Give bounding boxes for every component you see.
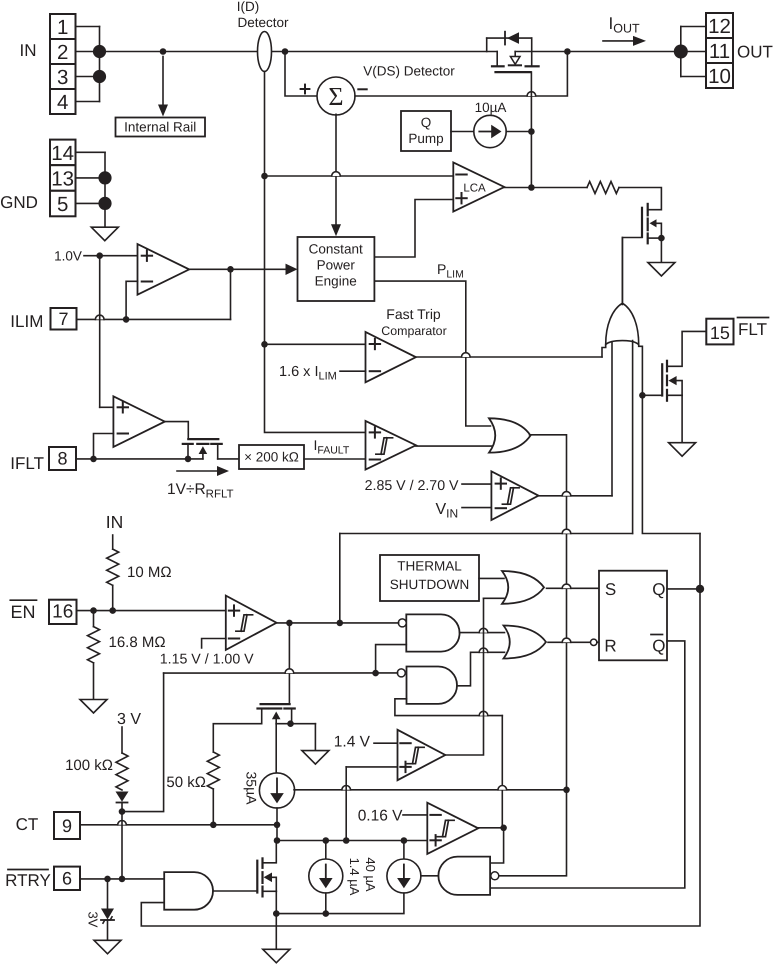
svg-text:RTRY: RTRY xyxy=(5,871,51,890)
svg-text:10µA: 10µA xyxy=(475,100,507,115)
svg-text:1.4 V: 1.4 V xyxy=(334,734,371,751)
svg-text:13: 13 xyxy=(51,167,74,190)
svg-text:I(D): I(D) xyxy=(237,0,260,14)
svg-text:Q: Q xyxy=(652,580,665,599)
svg-text:16.8 MΩ: 16.8 MΩ xyxy=(109,634,166,651)
svg-text:SHUTDOWN: SHUTDOWN xyxy=(390,577,470,592)
svg-text:2: 2 xyxy=(57,41,68,64)
svg-text:Power: Power xyxy=(317,258,356,273)
svg-text:LCA: LCA xyxy=(463,183,486,195)
svg-text:1: 1 xyxy=(57,16,68,39)
svg-text:16: 16 xyxy=(52,602,73,623)
svg-text:9: 9 xyxy=(62,816,72,836)
svg-text:Internal Rail: Internal Rail xyxy=(124,120,196,135)
svg-text:3V: 3V xyxy=(86,912,101,928)
svg-text:THERMAL: THERMAL xyxy=(397,559,462,574)
svg-text:35µA: 35µA xyxy=(244,772,260,806)
svg-text:Pump: Pump xyxy=(408,131,443,146)
svg-text:Σ: Σ xyxy=(328,82,343,111)
svg-text:Detector: Detector xyxy=(237,15,289,30)
svg-text:0.16 V: 0.16 V xyxy=(358,808,403,825)
svg-text:10 MΩ: 10 MΩ xyxy=(127,564,172,581)
svg-text:Q: Q xyxy=(421,115,432,130)
svg-text:EN: EN xyxy=(10,602,35,622)
svg-text:11: 11 xyxy=(709,40,730,63)
svg-text:12: 12 xyxy=(708,15,731,38)
svg-text:8: 8 xyxy=(57,449,67,469)
svg-text:40 µA: 40 µA xyxy=(363,857,378,892)
svg-text:15: 15 xyxy=(710,323,730,343)
svg-text:1.4 µA: 1.4 µA xyxy=(347,858,362,896)
svg-text:CT: CT xyxy=(16,815,39,834)
svg-text:ILIM: ILIM xyxy=(10,312,43,331)
svg-text:IN: IN xyxy=(20,41,37,60)
svg-text:× 200 kΩ: × 200 kΩ xyxy=(244,450,299,465)
svg-text:7: 7 xyxy=(58,309,68,329)
svg-text:R: R xyxy=(604,637,616,656)
svg-text:5: 5 xyxy=(57,193,68,216)
svg-text:V(DS) Detector: V(DS) Detector xyxy=(363,64,455,79)
svg-text:Comparator: Comparator xyxy=(381,324,446,338)
svg-text:Q: Q xyxy=(652,637,665,656)
svg-text:1.0V: 1.0V xyxy=(54,249,82,264)
svg-text:4: 4 xyxy=(57,91,68,114)
svg-text:IFLT: IFLT xyxy=(10,454,44,473)
svg-text:10: 10 xyxy=(708,65,731,88)
svg-text:14: 14 xyxy=(51,142,74,165)
svg-text:2.85 V / 2.70 V: 2.85 V / 2.70 V xyxy=(365,478,459,494)
svg-text:100 kΩ: 100 kΩ xyxy=(65,757,113,774)
svg-text:1.15 V / 1.00 V: 1.15 V / 1.00 V xyxy=(160,652,254,668)
svg-text:FLT: FLT xyxy=(738,320,767,339)
svg-text:Constant: Constant xyxy=(309,242,363,257)
svg-text:3: 3 xyxy=(57,66,68,89)
svg-text:6: 6 xyxy=(62,869,72,889)
svg-text:50 kΩ: 50 kΩ xyxy=(166,774,206,791)
svg-text:GND: GND xyxy=(0,193,38,212)
svg-text:IN: IN xyxy=(106,512,124,532)
svg-text:3 V: 3 V xyxy=(117,711,141,728)
svg-text:S: S xyxy=(605,580,616,599)
svg-text:Engine: Engine xyxy=(315,274,357,289)
svg-text:OUT: OUT xyxy=(737,43,773,62)
svg-text:Fast Trip: Fast Trip xyxy=(386,306,441,322)
